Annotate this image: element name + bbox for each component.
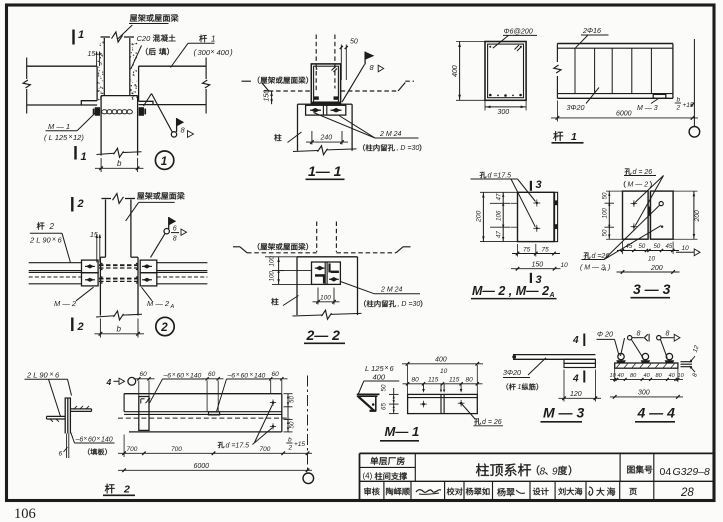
svg-text:( L 125: ( L 125 [44,133,68,142]
plate M-2: hole label [480,172,487,178]
plate M-1: hole label [474,418,481,424]
bar 2 elevation: dims 700 [123,435,125,458]
bar 1 elevation: axis line and bubble [693,39,695,126]
svg-text:2: 2 [123,484,130,496]
svg-text:G329–8: G329–8 [673,466,711,478]
svg-text:40: 40 [618,373,625,379]
svg-text:106: 106 [14,506,36,522]
svg-text:4: 4 [106,377,112,387]
svg-text:40: 40 [669,373,676,379]
section 3-3: dim 200 bottom [617,271,680,273]
svg-text:140: 140 [254,373,266,380]
bar 1 elevation: stirrup division lines [574,48,576,93]
svg-text:M — 2: M — 2 [628,182,649,189]
svg-text:, D =30: , D =30 [397,145,420,152]
svg-text:×: × [69,134,73,141]
svg-text:150: 150 [532,261,544,268]
detail 1: grout stipple left [98,91,99,92]
detail 1: bar 1 label [199,35,207,43]
svg-text:b: b [117,325,122,334]
svg-text:1— 1: 1— 1 [308,163,342,179]
detail 2: weld callout 6/8 [151,234,166,258]
svg-text:M — 1: M — 1 [48,122,70,131]
svg-text:300: 300 [498,109,510,116]
detail 1: section mark 1 (bottom) [74,146,76,160]
svg-text:28: 28 [680,487,694,499]
svg-text:50: 50 [602,192,609,199]
svg-text:C20: C20 [137,34,152,43]
svg-text:6000: 6000 [194,463,210,470]
detail 1: weld callout 8 [144,94,152,107]
svg-text:60: 60 [208,371,216,378]
svg-text:1: 1 [518,384,522,391]
plate M-3: dim 120 [563,370,565,402]
section 2-2: column bottom break [293,315,323,316]
detail 2: dim b [99,319,101,338]
plate M-1: holes d=26 [422,403,425,406]
section 4-4: base plate [615,363,678,368]
svg-text:300: 300 [198,48,211,57]
svg-text:M — 2: M — 2 [147,299,170,308]
section 2-2: dim 100 (bolt spacing) [317,288,319,305]
svg-text:d = 26: d = 26 [633,169,653,176]
svg-text:50: 50 [381,384,388,391]
detail 2: column at joint [99,257,101,315]
section 1-1: column [297,104,299,151]
detail 1: right beam (bar 1) [139,65,207,67]
bar 2 elevation: centerline [307,376,309,473]
svg-text:×: × [385,365,389,372]
svg-text:Φ 20: Φ 20 [597,330,613,339]
svg-text:): ) [607,265,610,272]
bar 2 elevation: dim 6000 [118,469,312,471]
plate M-2: dims 75/75 [517,244,519,257]
section 2-2: dims 100/100 [278,257,280,285]
section 2-2: column label [271,298,278,305]
svg-text:M— 2 , M— 2: M— 2 , M— 2 [472,284,549,298]
detail 1: right bolt [139,108,143,115]
svg-text:4: 4 [572,335,579,346]
svg-text:1: 1 [78,29,84,41]
section 4-4: weld callout 8 (left) [628,336,632,340]
svg-text:10: 10 [648,255,655,262]
svg-text:80: 80 [466,376,474,383]
svg-text:3Φ20: 3Φ20 [503,368,521,377]
detail 1: detail number circle 1 [155,151,173,169]
section 1-1: column bottom break [293,151,318,152]
svg-text:8: 8 [666,330,670,337]
detail 1: dim b under column [100,158,102,172]
plate M-2: section mark 3 top [530,181,532,191]
svg-text:A: A [549,292,555,299]
svg-text:60: 60 [88,437,96,444]
bar 2 elevation: lower angle [124,413,282,415]
svg-text:2: 2 [77,198,84,210]
svg-text:400: 400 [217,48,230,57]
detail 1: grout stipple right [135,96,138,99]
svg-text:140: 140 [190,373,202,380]
svg-text:d = 26: d = 26 [482,419,502,426]
svg-text:100: 100 [269,256,276,267]
plate M-2: section mark 3 bottom [530,273,532,283]
plate M-2: dims 47/106/47 [502,192,504,241]
section 1-1: weld callout 8 [364,52,366,65]
svg-text:300: 300 [638,389,650,396]
section 3-3: top hole label (M-2) [625,168,632,174]
plate M-2: side strip [555,192,558,241]
svg-text:47: 47 [496,231,503,238]
svg-text:×: × [50,372,54,379]
section 3-3: 10 arrow right [676,251,695,253]
svg-text:2: 2 [160,322,168,334]
title block: designer signature [589,487,593,495]
bar 2 elevation: axis bubble [303,473,314,484]
bar 2 elevation: hole label [218,442,225,448]
section 1-1: dim 240 [311,131,313,145]
svg-text:Φ6@200: Φ6@200 [504,27,533,36]
svg-text:(4): (4) [363,472,373,481]
svg-text:×: × [84,436,88,443]
svg-text:400: 400 [452,65,459,77]
section 4-4: dim 300 [610,396,683,398]
bar 1 elevation: M-3 plate [653,94,666,98]
section 1-1: bar 1 cross-section box [311,64,340,104]
svg-text:12): 12) [73,133,84,142]
detail 1: lower column [100,96,102,156]
section 2-2: roof beam dashed label [233,246,240,248]
svg-text:1: 1 [161,156,167,168]
detail 2: tie bar right segment [157,262,208,264]
svg-text:75: 75 [523,246,531,253]
svg-text:( M: ( M [580,265,590,272]
svg-text:106: 106 [496,210,503,221]
svg-text:–6: –6 [163,373,172,380]
detail 2: bar 2 label [37,222,45,230]
title block: reviewer signature [416,490,441,493]
svg-text:2 M 24: 2 M 24 [380,287,403,294]
plate M-2: outline [518,192,555,241]
plate M-1: plate elevation [408,394,478,413]
svg-text:M — 2: M — 2 [54,299,77,308]
bar 2 elevation: title [105,484,115,494]
svg-text:115: 115 [428,376,439,383]
svg-text:700: 700 [171,446,182,453]
section 1-1: roof member dashed outline [315,35,317,92]
svg-text:10: 10 [678,373,685,379]
bar 2 elevation: holes d=17.5 [272,401,275,404]
title block: main title [476,463,489,476]
svg-text:150: 150 [264,90,271,102]
svg-text:60: 60 [272,371,280,378]
detail 2: bolts through column (dashed) [99,264,140,266]
bar 2 elevation: dim 60 (left) [138,381,140,397]
detail 1: left bearing plate [81,101,97,105]
svg-text:100: 100 [602,208,609,219]
section 3-3: bottom dims 45/50/50/45 [622,242,624,255]
svg-text:×: × [250,372,254,379]
section 3-3: holes left plate [633,202,635,204]
bar 2 elevation: center dashed line [118,417,290,419]
svg-text:50: 50 [654,244,661,250]
plate M-1: dims 80/115/115/80 [403,383,483,385]
bar 2 angles: upper right leg [70,408,91,410]
svg-text:8: 8 [637,330,641,337]
section 1-1: column label [274,134,281,141]
plate M-1: dims 50/65 left [393,388,395,414]
svg-text:–6: –6 [75,437,84,444]
svg-text:8: 8 [540,467,546,478]
section 2-2: roof member dashed outline [316,222,318,253]
svg-text:100: 100 [320,294,331,301]
svg-text:50: 50 [289,421,296,428]
svg-text:40: 40 [644,373,651,379]
svg-text:45: 45 [666,244,673,250]
svg-text:d =17.5: d =17.5 [488,173,512,180]
detail 1: left beam [27,65,97,67]
section 3-3: dim 200 right [693,191,695,239]
detail 2: tie bar left segment [29,262,82,264]
bar 2 elevation: left filler plate [139,397,149,431]
detail 1: left bolt [95,108,99,115]
svg-text:b: b [677,97,681,104]
svg-text:400: 400 [373,373,386,382]
svg-text:100: 100 [269,271,276,282]
svg-text:15: 15 [88,51,96,58]
svg-text:): ) [229,48,233,57]
svg-text:3Φ20: 3Φ20 [567,103,585,112]
svg-text:4: 4 [572,374,579,385]
svg-text:b: b [117,159,122,168]
svg-text:200: 200 [650,265,663,272]
plate M-3: rebar bar [513,354,595,356]
svg-text:×: × [211,49,215,56]
detail 2: section mark 2 (top) [71,197,73,212]
svg-text:×: × [186,372,190,379]
section 3-3: dims 50/100/50 left [608,191,610,239]
section 3-3: left plate [623,191,649,239]
svg-text:2: 2 [288,445,293,452]
title block: outer lines [360,452,715,454]
svg-text:10: 10 [561,262,569,269]
svg-text:6: 6 [173,226,177,233]
section 3-3: bottom hole label (M-2A) [584,252,591,258]
svg-text:120: 120 [570,391,582,398]
svg-text:M— 1: M— 1 [385,424,420,439]
svg-text:+15: +15 [294,441,305,448]
svg-text:200: 200 [476,210,483,223]
bar 2 elevation: dims 50/50 right [284,393,293,395]
detail 2: upper column [105,200,107,258]
plate M-1: dim 400 top [407,365,409,394]
bar 2 angles: vertical legs [64,398,66,434]
svg-text:2Φ16: 2Φ16 [582,26,601,35]
svg-text:6: 6 [59,451,63,458]
bar 1 section: dim 400 [459,42,461,101]
svg-text:d =17.5: d =17.5 [226,443,250,450]
svg-text:M — 3: M — 3 [637,105,658,112]
detail 2: bolt end brackets [101,264,103,270]
bar 1 elevation: title [553,131,563,141]
bar 1 elevation: member outline [557,43,673,45]
svg-text:×: × [236,372,240,379]
svg-text:–6: –6 [227,373,236,380]
plate M-3: plate [564,359,595,363]
svg-text:2: 2 [77,321,84,333]
svg-text:75: 75 [542,246,550,253]
svg-text:200: 200 [694,210,701,223]
section 1-1: stirrup corner marks [332,67,336,71]
svg-text:1: 1 [81,151,87,163]
svg-text:50: 50 [639,244,646,250]
svg-text:3: 3 [536,179,542,191]
svg-text:9: 9 [552,467,558,478]
svg-text:10: 10 [440,368,448,375]
svg-text:115: 115 [449,376,460,383]
bar 1 section: dim 300 [485,106,526,108]
section 4-4: anchor bolts [618,353,624,359]
svg-text:A: A [602,267,607,273]
svg-text:2— 2: 2— 2 [306,327,341,343]
svg-text:60: 60 [241,373,249,380]
svg-text:400: 400 [435,356,447,363]
section 4-4: bottom dims 10/40/80/40/80/40/10 [614,368,616,382]
svg-text:×: × [52,236,56,243]
plate M-2: dim 200 left [482,192,484,241]
svg-text:×: × [97,436,101,443]
title block: checker signature [497,488,505,496]
section 1-1: anchor plate with bolts [306,105,346,115]
bar 1 section: outline [485,42,526,101]
plate M-2: dim 150 and 10 [511,268,561,270]
svg-text:, D =30: , D =30 [398,301,421,308]
svg-text:10: 10 [610,373,617,379]
section 1-1: dim 150 [271,91,273,104]
detail 2: detail number circle 2 [156,317,174,335]
section 2-2: bolt plate box [312,262,341,284]
svg-text:b: b [288,437,292,444]
svg-text:10: 10 [682,245,690,252]
svg-text:2: 2 [49,222,55,231]
svg-text:50: 50 [289,396,296,403]
svg-text:240: 240 [320,135,333,142]
svg-text:M — 3: M — 3 [543,405,584,421]
svg-text:80: 80 [656,373,663,379]
svg-text:140: 140 [101,437,113,444]
svg-text:2 L 90: 2 L 90 [29,235,52,244]
svg-text:1: 1 [211,35,215,44]
detail 1: upper column (roof member) [103,38,105,96]
svg-text:700: 700 [127,446,138,453]
svg-text:4 — 4: 4 — 4 [637,405,676,421]
svg-text:8: 8 [173,236,177,243]
bar 1 elevation: dim 6000 [556,101,558,122]
svg-text:04: 04 [660,466,672,478]
svg-text:6000: 6000 [616,110,632,117]
bar 2 angles: lower left leg [47,415,66,417]
title block: review row cells [383,481,385,500]
svg-text:2 L 90: 2 L 90 [26,371,49,380]
detail 2: roof beam label [137,192,144,199]
svg-text:50: 50 [602,229,609,236]
bar 2 elevation: upper angle [124,393,282,395]
section 4-4: plate edge view right [681,361,693,363]
detail 2: left connection plates M-2 [82,260,99,273]
detail 2: right connection plates M-2A [140,260,157,273]
svg-text:2: 2 [676,105,681,112]
svg-text:65: 65 [381,403,388,410]
title block: left cells [360,466,416,468]
svg-text:2 M 24: 2 M 24 [379,131,402,138]
svg-text:A: A [170,304,175,310]
detail 1: roof beam label [130,15,137,22]
bar 1 section: rebar dots [489,46,491,48]
bar 2 elevation: weld tick top left [140,399,142,404]
detail 1: anchor bolt chain [102,110,108,114]
svg-text:80: 80 [630,373,637,379]
svg-text:×: × [172,372,176,379]
title block: atlas number cell [619,453,621,481]
section 3-3: right plate [651,191,674,239]
detail 1: column bottom break [97,153,115,154]
section 1-1: roof beam dashed label [242,80,252,82]
plate M-1: angle bracket profile [357,393,380,395]
svg-text:700: 700 [260,446,271,453]
detail 2: column bottom break [96,316,114,317]
svg-text:60: 60 [177,373,185,380]
section 3-3: gap lines [649,191,651,239]
svg-text:50: 50 [350,39,358,46]
svg-text:3 — 3: 3 — 3 [633,281,671,297]
plate M-2: holes d=17.5 [536,202,538,204]
section 3-3: holes right plate [659,202,663,206]
detail 1: section mark 1 (top) [72,30,74,45]
svg-text:60: 60 [140,371,148,378]
bar 2 elevation: middle filler plate [209,412,220,415]
bar 2 elevation: dim 60 (middle) [206,381,208,412]
bar 2 elevation: dim 60 (right) [270,380,272,393]
detail 2: section mark 2 (bottom) [71,318,73,332]
svg-text:47: 47 [496,193,503,200]
svg-text:45: 45 [626,244,633,250]
detail 1: right bearing plate [139,101,153,104]
svg-text:1: 1 [571,131,577,143]
section 4-4: weld callout 8 (right) [657,336,661,340]
section 2-2: column [296,257,298,315]
svg-text:80: 80 [412,376,420,383]
